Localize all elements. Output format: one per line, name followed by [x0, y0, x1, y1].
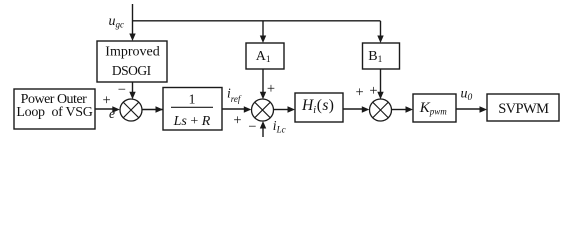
svg-text:Loop of VSG: Loop of VSG: [16, 105, 92, 120]
svg-text:−: −: [248, 119, 256, 135]
svg-text:+: +: [369, 83, 377, 99]
svg-text:Hi(s): Hi(s): [301, 97, 334, 116]
svg-text:iLc: iLc: [273, 118, 286, 135]
svg-text:+: +: [233, 112, 241, 128]
svg-text:+: +: [103, 93, 111, 109]
svg-text:u0: u0: [461, 86, 473, 103]
svg-text:ugc: ugc: [109, 14, 125, 30]
svg-text:Improved: Improved: [105, 45, 159, 60]
svg-text:DSOGI: DSOGI: [112, 63, 152, 78]
svg-text:SVPWM: SVPWM: [498, 101, 549, 117]
svg-text:iref: iref: [227, 85, 242, 104]
svg-text:1: 1: [189, 93, 196, 108]
svg-text:Ls + R: Ls + R: [173, 114, 211, 129]
svg-text:+: +: [267, 81, 275, 97]
svg-text:−: −: [118, 82, 126, 98]
svg-text:+: +: [356, 85, 364, 101]
